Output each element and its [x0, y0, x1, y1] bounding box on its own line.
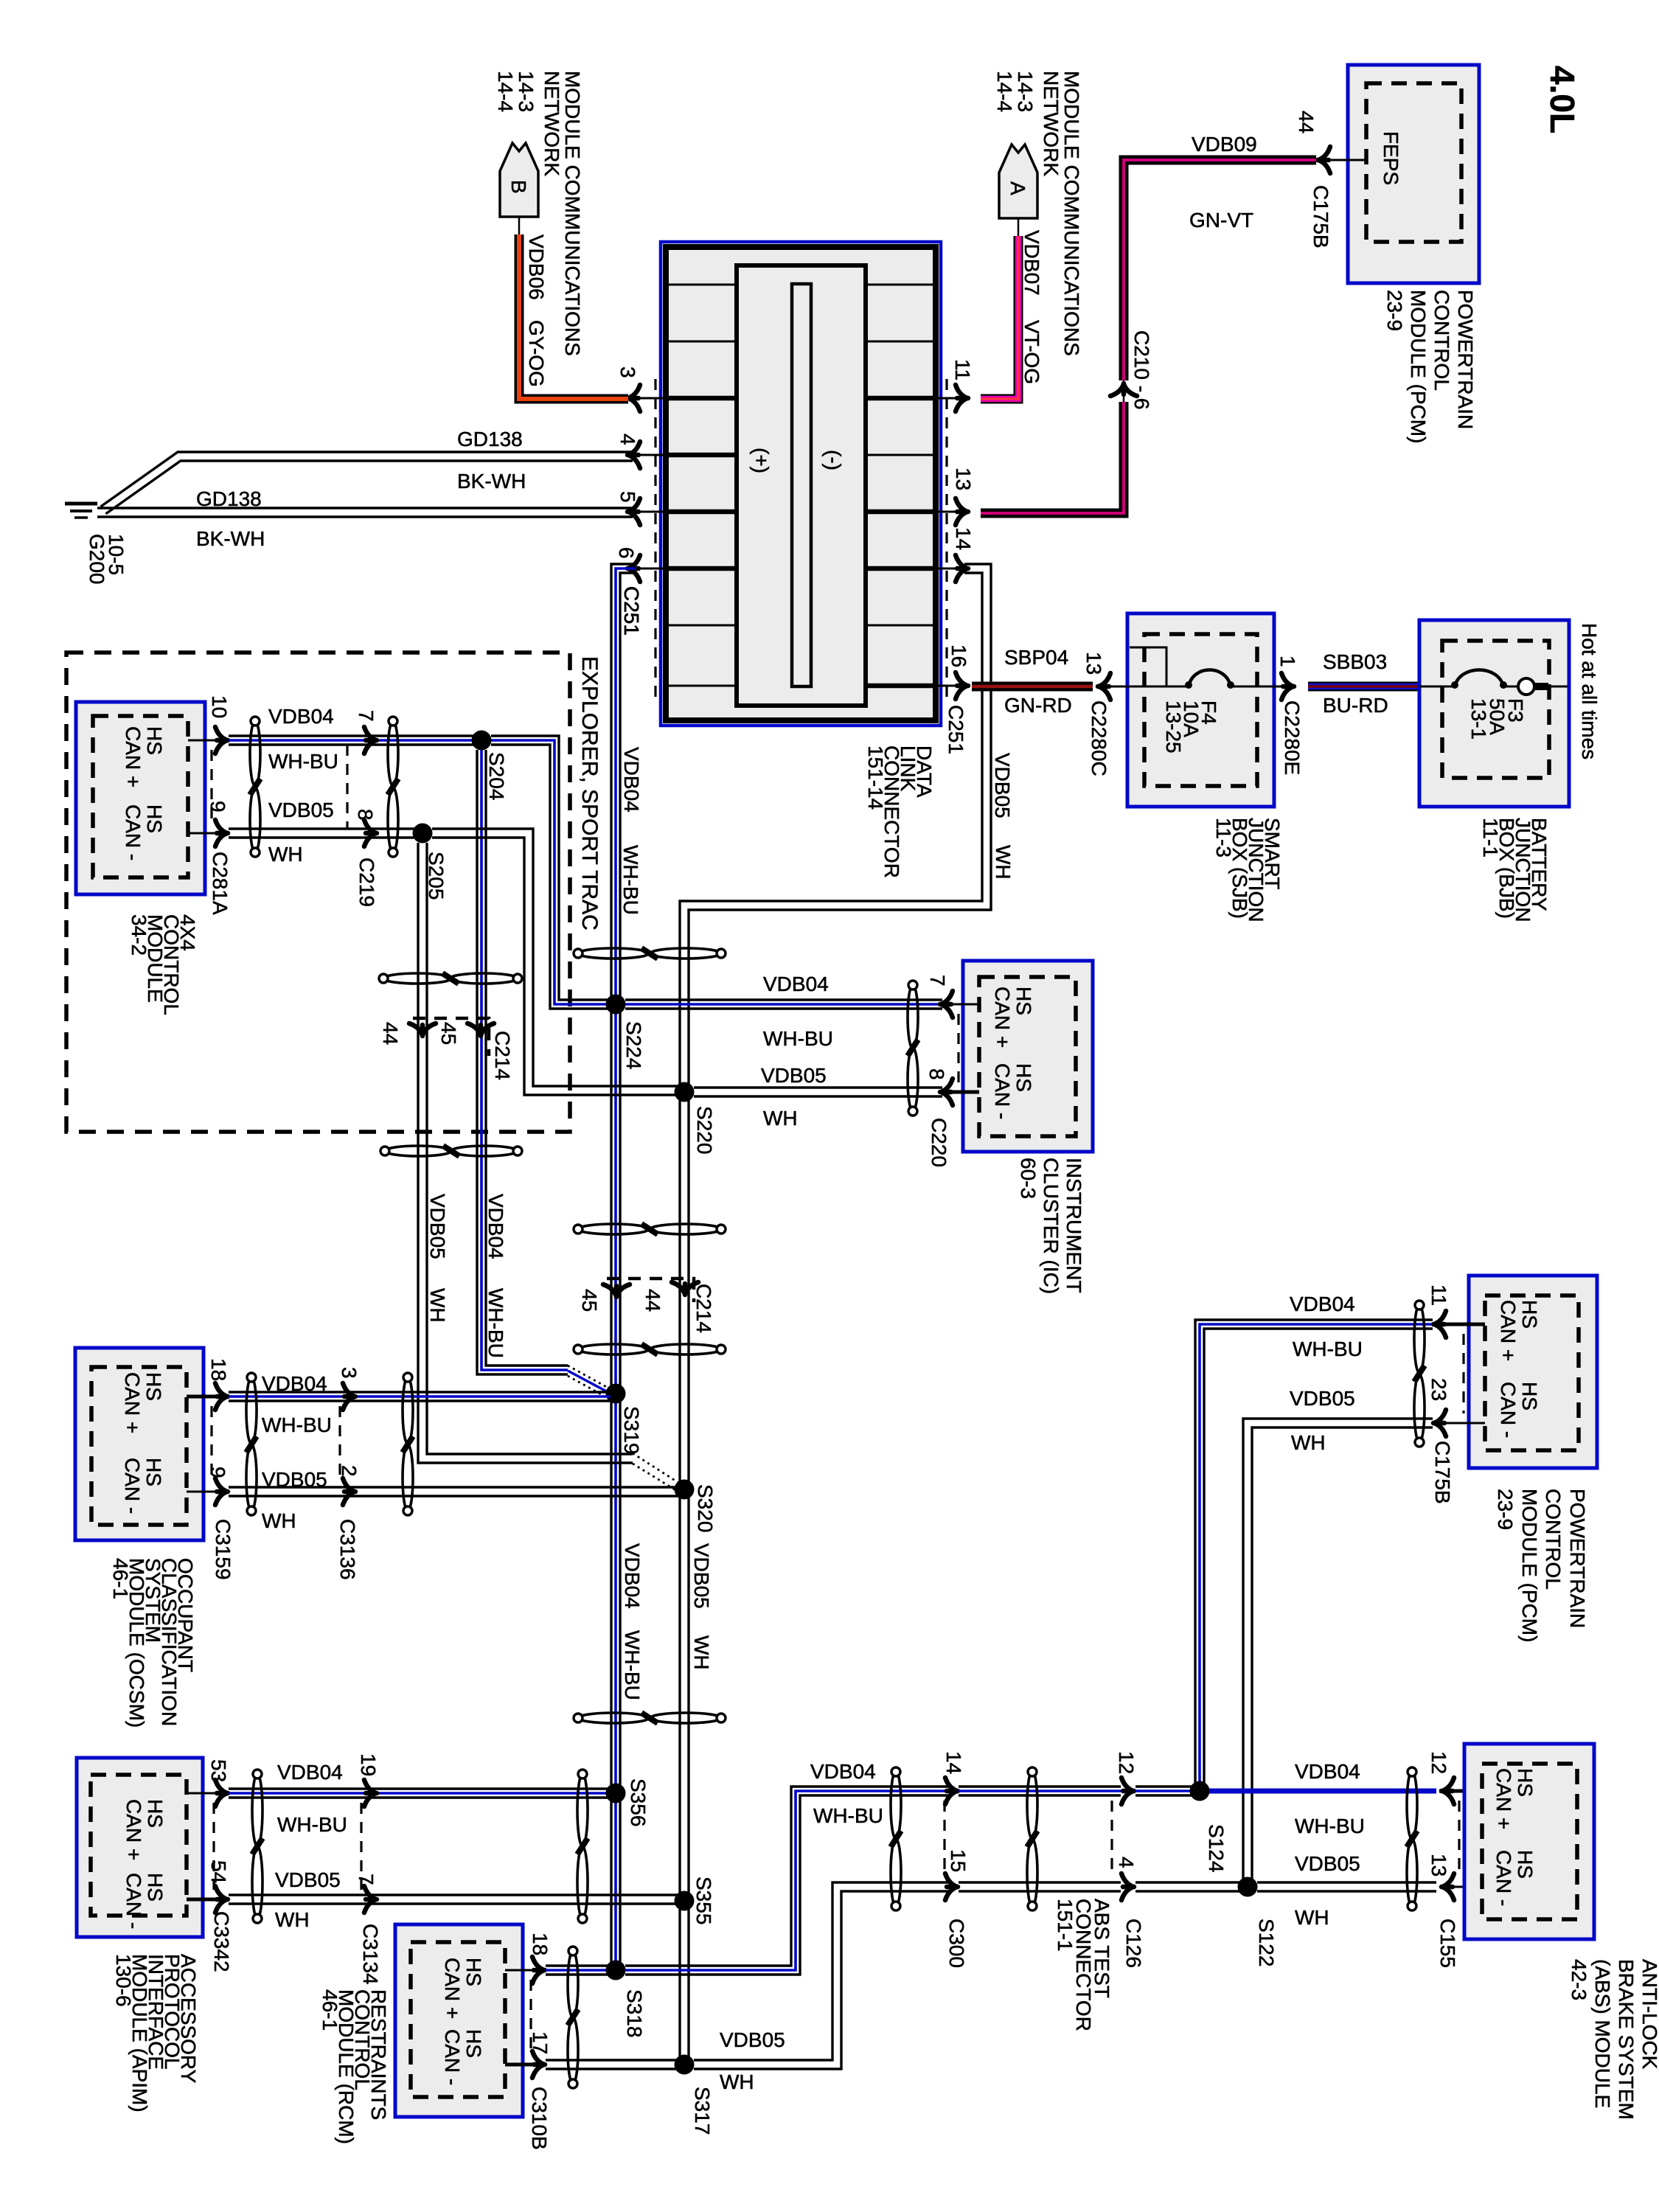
fuse F3 terminal bar — [1535, 683, 1548, 690]
svg-text:EXPLORER, SPORT TRAC: EXPLORER, SPORT TRAC — [577, 656, 602, 931]
twisted pair symbol trunks py1293 — [578, 948, 649, 959]
svg-text:WH: WH — [1291, 1431, 1326, 1454]
IC pin 7 stub — [942, 1004, 979, 1006]
svg-text:23-9: 23-9 — [1383, 290, 1406, 331]
module PCM (FEPS) box — [1348, 65, 1479, 283]
svg-text:C3134: C3134 — [359, 1924, 382, 1985]
connector C310B dashed — [529, 1980, 532, 2055]
connector C300 dashed — [943, 1801, 945, 1877]
svg-text:C214: C214 — [692, 1284, 715, 1333]
svg-text:INSTRUMENT: INSTRUMENT — [1062, 1158, 1085, 1293]
module APIM — [77, 1758, 203, 1937]
svg-text:CAN +: CAN + — [122, 1799, 145, 1860]
svg-text:BK-WH: BK-WH — [457, 470, 526, 493]
wire VDB04 S204 right leg — [491, 736, 611, 1000]
wire VDB05 WH S317 to C300 — [694, 1882, 951, 2060]
connector C219 pin 7 arrow — [364, 727, 377, 754]
svg-text:VDB05: VDB05 — [268, 799, 334, 821]
wire VDB04 WH-BU S318 to C300 — [625, 1787, 951, 1966]
svg-text:VDB04: VDB04 — [268, 705, 334, 728]
module OCSM — [75, 1348, 204, 1540]
svg-text:VDB05: VDB05 — [1290, 1387, 1355, 1410]
off-page connector B — [500, 143, 538, 217]
svg-text:7: 7 — [926, 975, 949, 987]
ABS pin 13 stub — [1439, 1886, 1482, 1888]
svg-text:17: 17 — [529, 2031, 552, 2054]
wire VDB05 WH APIM pin54 — [229, 1893, 679, 1896]
svg-text:14-3: 14-3 — [1014, 71, 1037, 112]
svg-text:CAN -: CAN - — [1492, 1850, 1515, 1906]
connector C251 dashed boundary left — [654, 379, 656, 699]
fuse F4 10A — [1189, 670, 1231, 687]
svg-text:C281A: C281A — [209, 852, 232, 915]
svg-text:MODULE COMMUNICATIONS: MODULE COMMUNICATIONS — [1060, 71, 1083, 356]
svg-text:44: 44 — [379, 1022, 402, 1045]
svg-text:WH-BU: WH-BU — [1293, 1338, 1363, 1360]
svg-text:S122: S122 — [1255, 1919, 1278, 1966]
svg-text:11: 11 — [1427, 1284, 1450, 1306]
svg-text:2: 2 — [338, 1465, 361, 1477]
wire VDB05 WH S220 to IC pin8 — [694, 1086, 942, 1088]
svg-text:C155: C155 — [1436, 1919, 1459, 1968]
svg-text:HS: HS — [1518, 1382, 1541, 1411]
splice S205 — [413, 824, 433, 844]
twisted pair symbol before C300 — [891, 1771, 901, 1839]
svg-text:13: 13 — [952, 467, 975, 490]
twisted pair symbol after C3134 — [577, 1774, 588, 1846]
fuse F3 50A — [1455, 670, 1503, 687]
svg-text:18: 18 — [529, 1933, 552, 1955]
svg-text:151-1: 151-1 — [1054, 1899, 1077, 1952]
svg-text:WH-BU: WH-BU — [484, 1288, 507, 1358]
wire VDB05 diagonal into S320 — [633, 1453, 680, 1484]
twisted pair symbol trunks py2330 — [578, 1713, 649, 1723]
svg-text:VDB04: VDB04 — [277, 1761, 343, 1784]
svg-text:GN-VT: GN-VT — [1189, 209, 1253, 232]
svg-text:5: 5 — [616, 491, 639, 503]
svg-text:FEPS: FEPS — [1380, 131, 1402, 185]
svg-text:HS: HS — [142, 1372, 165, 1401]
svg-text:13: 13 — [1082, 652, 1105, 675]
svg-text:1: 1 — [1276, 655, 1299, 667]
svg-text:18: 18 — [207, 1358, 230, 1381]
svg-text:GD138: GD138 — [196, 487, 262, 510]
wire VDB04 WH-BU trunk from DLC pin 6 — [620, 573, 636, 1970]
svg-text:14-3: 14-3 — [515, 71, 538, 112]
smart junction box SJB — [1127, 613, 1274, 807]
svg-text:HS: HS — [462, 2029, 485, 2058]
svg-text:CAN +: CAN + — [1492, 1768, 1515, 1829]
svg-text:9: 9 — [206, 1467, 229, 1478]
twisted pair symbol left pairs lower — [385, 1146, 451, 1156]
svg-text:13-25: 13-25 — [1162, 700, 1185, 754]
wire VDB05 WH PCM pin 23 riser — [1252, 1427, 1433, 1887]
svg-text:C3159: C3159 — [212, 1519, 234, 1580]
splice S320 — [675, 1480, 695, 1500]
svg-text:WH-BU: WH-BU — [813, 1804, 883, 1827]
svg-text:CAN +: CAN + — [991, 987, 1014, 1048]
connector C214 dashed first — [413, 1018, 489, 1056]
APIM pin 53 stub — [187, 1792, 221, 1795]
wire VDB05 WH OCSM pin9 — [229, 1486, 679, 1488]
splice S317 — [675, 2055, 695, 2075]
connector C3134 pin 19 arrow — [364, 1780, 377, 1806]
svg-text:4: 4 — [616, 434, 639, 445]
svg-text:POWERTRAIN: POWERTRAIN — [1454, 290, 1477, 429]
svg-text:WH-BU: WH-BU — [621, 1630, 644, 1700]
svg-text:14-4: 14-4 — [494, 71, 517, 112]
svg-text:GY-OG: GY-OG — [525, 320, 548, 387]
svg-text:CAN -: CAN - — [991, 1063, 1014, 1119]
twisted pair symbol C3342 — [252, 1774, 262, 1846]
SJB internal wire — [1109, 686, 1289, 688]
pennant A stem — [1018, 218, 1020, 237]
connector C214 pin 45 arrow — [467, 1023, 494, 1036]
explorer sport trac dashed box — [66, 653, 570, 1132]
connector C3342 dashed — [212, 1803, 215, 1890]
svg-text:13: 13 — [1427, 1854, 1450, 1877]
svg-text:HS: HS — [1514, 1768, 1537, 1797]
connector C300 pin 14 arrow — [945, 1778, 958, 1804]
svg-text:CAN +: CAN + — [441, 1958, 464, 2019]
svg-text:ANTI-LOCK: ANTI-LOCK — [1638, 1959, 1659, 2070]
wire VDB07 VT-OG — [981, 236, 1018, 399]
svg-text:(+): (+) — [750, 448, 773, 473]
svg-text:(ABS) MODULE: (ABS) MODULE — [1591, 1959, 1614, 2108]
svg-text:A: A — [1006, 181, 1029, 195]
svg-text:NETWORK: NETWORK — [540, 71, 563, 176]
APIM pin 54 stub — [187, 1898, 221, 1902]
svg-text:WH-BU: WH-BU — [262, 1413, 332, 1436]
connector C214 pin 45 arrow second — [603, 1284, 630, 1297]
RCM pin 17 stub — [505, 2063, 538, 2067]
twisted pair symbol C281A — [250, 721, 260, 786]
twisted pair symbol C219 — [388, 721, 398, 786]
svg-text:VDB05: VDB05 — [262, 1468, 327, 1491]
svg-text:SBP04: SBP04 — [1004, 646, 1068, 669]
svg-text:WH: WH — [262, 1509, 296, 1532]
RCM pin 18 stub — [505, 1969, 538, 1972]
wire VDB04 WH-BU OCSM pin18 — [229, 1391, 611, 1393]
wire SBB03 BU-RD — [1308, 682, 1419, 692]
svg-text:WH-BU: WH-BU — [1295, 1815, 1365, 1837]
svg-text:WH: WH — [763, 1107, 798, 1130]
svg-text:12: 12 — [1115, 1751, 1138, 1774]
svg-text:HS: HS — [1012, 1063, 1035, 1092]
svg-text:8: 8 — [354, 809, 377, 821]
wire SBP04 GN-RD — [972, 682, 1093, 692]
svg-text:C310B: C310B — [528, 2087, 551, 2150]
twisted pair symbol C310B — [568, 1951, 578, 2017]
svg-text:S319: S319 — [620, 1406, 643, 1454]
connector C251 dashed boundary right — [945, 379, 947, 699]
svg-text:7: 7 — [355, 710, 378, 722]
twisted pair symbol trunks py1830 — [578, 1344, 649, 1354]
connector C219 pin 8 arrow — [364, 820, 377, 846]
svg-text:19: 19 — [357, 1753, 380, 1776]
svg-text:11-1: 11-1 — [1479, 818, 1502, 858]
svg-text:C2280E: C2280E — [1281, 700, 1304, 775]
svg-text:14-4: 14-4 — [993, 71, 1016, 112]
svg-text:7: 7 — [355, 1874, 378, 1885]
svg-text:S220: S220 — [693, 1106, 716, 1154]
svg-text:CAN -: CAN - — [1497, 1382, 1520, 1438]
IC pin 8 stub — [942, 1091, 979, 1094]
svg-text:10: 10 — [208, 695, 231, 718]
svg-text:S124: S124 — [1205, 1824, 1228, 1872]
connector C3136 dashed — [338, 1406, 341, 1482]
connector C214 pin 44 arrow — [409, 1023, 436, 1036]
wire VDB04 WH-BU APIM pin53 — [229, 1787, 611, 1790]
wire VDB04 C300 to C126 — [959, 1785, 1121, 1787]
svg-text:VDB05: VDB05 — [275, 1868, 341, 1891]
svg-text:10-5: 10-5 — [105, 534, 128, 575]
svg-text:HS: HS — [462, 1958, 485, 1986]
connector C126 pin 4 arrow — [1121, 1874, 1134, 1900]
connector C155 dashed — [1458, 1801, 1460, 1877]
wire VDB05 WH 4X4 pin9 — [229, 827, 422, 829]
svg-text:CLUSTER (IC): CLUSTER (IC) — [1040, 1158, 1062, 1294]
svg-text:23-9: 23-9 — [1494, 1489, 1517, 1530]
svg-text:VDB04: VDB04 — [262, 1372, 327, 1395]
svg-text:S356: S356 — [627, 1778, 650, 1826]
svg-text:4.0L: 4.0L — [1543, 66, 1582, 133]
svg-text:S317: S317 — [691, 2087, 714, 2135]
svg-text:C175B: C175B — [1310, 185, 1332, 248]
DLC center rect — [737, 265, 866, 706]
svg-text:VDB05: VDB05 — [690, 1543, 713, 1609]
svg-text:9: 9 — [206, 801, 229, 813]
connector C126 pin 12 arrow — [1121, 1778, 1134, 1804]
svg-text:C210 - 6: C210 - 6 — [1130, 330, 1153, 409]
svg-text:VDB04: VDB04 — [763, 973, 829, 995]
splice S124 — [1190, 1781, 1210, 1801]
svg-text:BU-RD: BU-RD — [1323, 694, 1388, 717]
svg-text:44: 44 — [641, 1289, 664, 1312]
connector C3134 dashed — [360, 1803, 362, 1890]
connector C220 dashed — [957, 1014, 959, 1082]
wire SBP04 crossing patch — [972, 682, 1003, 692]
wire VDB04 S204 down to C214 — [486, 750, 568, 1366]
svg-text:C251: C251 — [945, 705, 967, 754]
connector C219 dashed — [346, 745, 348, 829]
twisted pair symbol C155 — [1407, 1771, 1417, 1839]
twisted pair symbol trunks py1667 — [578, 1224, 649, 1234]
svg-text:16: 16 — [947, 644, 970, 667]
splice S319 — [606, 1384, 626, 1404]
svg-text:130-6: 130-6 — [112, 1954, 135, 2007]
svg-text:S224: S224 — [622, 1021, 645, 1069]
svg-text:42-3: 42-3 — [1568, 1959, 1590, 2000]
svg-text:14: 14 — [952, 527, 975, 550]
svg-text:WH-BU: WH-BU — [268, 750, 338, 773]
wire VDB05 WH from DLC pin 14 — [689, 564, 991, 2065]
svg-text:WH: WH — [1295, 1906, 1329, 1929]
svg-text:VDB05: VDB05 — [761, 1064, 827, 1087]
wire VDB04 WH-BU RCM pin18 — [546, 1964, 611, 1966]
svg-text:CAN +: CAN + — [1497, 1300, 1520, 1361]
wire VDB04 diagonal into S319 — [568, 1366, 611, 1389]
svg-text:CONTROL: CONTROL — [1430, 290, 1453, 391]
svg-text:CAN -: CAN - — [441, 2029, 464, 2085]
svg-text:VDB05: VDB05 — [720, 2028, 785, 2051]
svg-text:MODULE COMMUNICATIONS: MODULE COMMUNICATIONS — [561, 71, 584, 356]
FEPS pin 44 stub — [1320, 159, 1366, 161]
svg-text:11-3: 11-3 — [1212, 818, 1235, 858]
svg-text:4: 4 — [1115, 1857, 1138, 1868]
svg-text:WH: WH — [275, 1908, 310, 1931]
connector C2280E arrow pin 1 — [1281, 673, 1294, 700]
svg-text:HS: HS — [1012, 987, 1035, 1015]
wire VDB05 C300 to C126 — [959, 1881, 1121, 1883]
svg-text:34-2: 34-2 — [128, 914, 150, 956]
svg-text:CAN -: CAN - — [121, 1458, 144, 1514]
svg-text:VDB05: VDB05 — [426, 1194, 449, 1259]
connector C3159 dashed — [210, 1406, 212, 1482]
svg-text:VDB04: VDB04 — [1290, 1293, 1355, 1315]
svg-text:53: 53 — [207, 1759, 230, 1782]
svg-text:C251: C251 — [620, 586, 643, 636]
svg-text:WH: WH — [690, 1635, 713, 1670]
svg-text:14: 14 — [942, 1751, 965, 1774]
splice S220 — [675, 1082, 695, 1102]
splice S122 — [1238, 1877, 1258, 1897]
wire VDB09 GN-VT upper — [1124, 160, 1316, 380]
module instrument cluster IC — [963, 961, 1093, 1152]
svg-text:VDB04: VDB04 — [620, 747, 643, 813]
svg-text:C126: C126 — [1122, 1919, 1145, 1968]
svg-text:GN-RD: GN-RD — [1004, 694, 1072, 717]
twisted pair symbol after C3136 — [403, 1377, 413, 1444]
svg-text:(-): (-) — [822, 450, 845, 470]
svg-text:CAN -: CAN - — [122, 1873, 145, 1929]
svg-text:VT-OG: VT-OG — [1020, 320, 1043, 384]
svg-text:VDB09: VDB09 — [1192, 133, 1257, 156]
svg-text:VDB04: VDB04 — [621, 1543, 644, 1609]
svg-text:WH-BU: WH-BU — [619, 845, 642, 915]
svg-text:VDB05: VDB05 — [991, 753, 1014, 818]
svg-text:WH-BU: WH-BU — [277, 1813, 347, 1836]
splice S204 — [472, 731, 492, 751]
DLC pin row lines — [666, 284, 737, 286]
connector C3136 pin 2 arrow — [343, 1478, 355, 1505]
svg-text:GD138: GD138 — [457, 428, 523, 451]
twisted pair symbol left pairs upper — [383, 973, 451, 984]
ground G200 symbol — [65, 502, 97, 506]
PCM pin 11 stub — [1438, 1323, 1485, 1326]
svg-text:VDB06: VDB06 — [525, 234, 548, 300]
svg-text:HS: HS — [143, 726, 166, 755]
connector C3136 pin 3 arrow — [343, 1383, 355, 1410]
svg-text:HS: HS — [142, 1458, 165, 1486]
svg-text:45: 45 — [437, 1022, 460, 1045]
4X4 pin 10 stub — [188, 740, 221, 742]
svg-text:CAN +: CAN + — [122, 726, 145, 787]
svg-text:CAN -: CAN - — [122, 804, 145, 860]
wire VDB04 WH-BU 4X4 pin10 — [229, 734, 481, 737]
svg-text:WH-BU: WH-BU — [763, 1027, 833, 1050]
svg-text:11: 11 — [951, 359, 974, 380]
svg-text:HS: HS — [144, 1799, 167, 1828]
svg-text:MODULE (PCM): MODULE (PCM) — [1407, 290, 1430, 443]
connector C3134 pin 7 arrow — [364, 1886, 377, 1913]
svg-text:8: 8 — [925, 1068, 948, 1080]
svg-text:HS: HS — [1518, 1300, 1541, 1329]
svg-text:3: 3 — [338, 1367, 361, 1379]
wire VDB05 WH RCM pin17 — [546, 2059, 679, 2061]
OCSM pin 18 stub — [187, 1395, 221, 1399]
twisted pair symbol C3159 — [246, 1377, 257, 1444]
svg-text:VDB07: VDB07 — [1020, 230, 1043, 296]
PCM pin 23 stub — [1438, 1422, 1485, 1425]
svg-text:6: 6 — [615, 547, 638, 559]
twisted pair symbol C220 — [908, 985, 918, 1048]
wire VDB04 WH-BU S224 to IC pin7 — [625, 998, 942, 1001]
svg-text:Hot at all times: Hot at all times — [1578, 623, 1601, 759]
wire VDB04 WH-BU PCM pin 11 riser — [1204, 1329, 1433, 1791]
DLC pins 3-6 arrows — [633, 397, 666, 400]
svg-text:C175B: C175B — [1431, 1441, 1454, 1504]
wire VDB04 solid blue S124 to ABS — [1209, 1789, 1436, 1794]
svg-text:C3342: C3342 — [210, 1911, 233, 1972]
svg-text:23: 23 — [1427, 1378, 1450, 1401]
svg-text:WH: WH — [720, 2070, 754, 2093]
svg-text:151-14: 151-14 — [864, 745, 887, 810]
svg-text:NETWORK: NETWORK — [1040, 71, 1062, 176]
4X4 pin 9 stub — [188, 832, 221, 835]
svg-text:HS: HS — [143, 804, 166, 833]
connector C210-6 arrow — [1110, 383, 1137, 396]
svg-text:45: 45 — [578, 1289, 601, 1312]
svg-text:S318: S318 — [623, 1989, 646, 2037]
twisted pair symbol after C300 — [1027, 1771, 1037, 1839]
wire VDB04 C126 to S124 — [1135, 1785, 1200, 1787]
svg-text:WH: WH — [426, 1288, 449, 1323]
connector C281A dashed — [210, 750, 212, 824]
svg-text:B: B — [507, 180, 530, 194]
svg-text:13-1: 13-1 — [1467, 698, 1490, 740]
svg-text:46-1: 46-1 — [109, 1558, 132, 1599]
wire VDB06 GY-OG — [519, 234, 628, 399]
battery junction box BJB — [1419, 620, 1569, 807]
wire VDB09 GN-VT lower — [981, 402, 1124, 513]
OCSM pin 9 stub — [187, 1491, 221, 1493]
splice S224 — [606, 995, 626, 1015]
svg-text:C219: C219 — [355, 858, 378, 907]
svg-text:POWERTRAIN: POWERTRAIN — [1566, 1489, 1589, 1628]
module 4X4 control module — [76, 702, 205, 894]
svg-text:S320: S320 — [694, 1484, 717, 1532]
BJB internal wire — [1419, 686, 1568, 688]
svg-text:44: 44 — [1295, 111, 1318, 133]
svg-text:15: 15 — [947, 1849, 970, 1872]
splice S356 — [606, 1784, 626, 1804]
off-page connector A — [999, 145, 1037, 218]
wire GD138 BK-WH to DLC pin 5 — [97, 507, 633, 509]
svg-text:3: 3 — [616, 366, 639, 378]
svg-text:C3136: C3136 — [336, 1519, 359, 1580]
wire VDB05 S205 right leg — [432, 829, 679, 1086]
svg-text:HS: HS — [1514, 1850, 1537, 1879]
DLC box body — [666, 247, 936, 720]
twisted pair symbol C175B — [1414, 1305, 1425, 1373]
wire GD138 BK-WH to DLC pin 4 — [101, 452, 633, 507]
svg-text:SBB03: SBB03 — [1323, 650, 1387, 673]
fuse F3 terminal circle — [1518, 678, 1534, 695]
svg-text:HS: HS — [144, 1873, 167, 1902]
DLC inner slot — [792, 284, 811, 686]
splice S355 — [675, 1891, 695, 1911]
